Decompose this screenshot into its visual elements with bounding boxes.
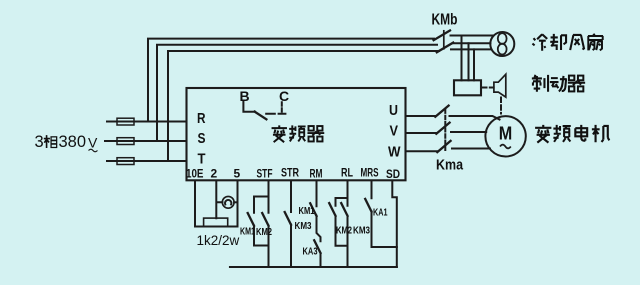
svg-text:2: 2 xyxy=(211,167,218,181)
terminal stub 2 wire to pot wiper circle xyxy=(216,181,222,218)
svg-text:KM2: KM2 xyxy=(256,226,272,238)
terminal label R xyxy=(197,110,206,127)
wire pot circle to terminal 5 xyxy=(234,201,237,203)
wire U from inverter xyxy=(406,115,436,117)
svg-text:MRS: MRS xyxy=(361,166,379,180)
RL branch stub and split xyxy=(336,181,348,206)
terminal label SD xyxy=(386,167,400,181)
svg-text:Kma: Kma xyxy=(436,157,464,174)
svg-text:SD: SD xyxy=(386,167,400,181)
fuse FU3 (T phase) xyxy=(117,158,134,165)
RM branch wire lower xyxy=(320,253,322,267)
svg-text:1k2/2w: 1k2/2w xyxy=(197,233,240,248)
svg-text:U: U xyxy=(389,102,398,119)
contact KA3 blade (RM) xyxy=(314,240,320,253)
svg-text:380: 380 xyxy=(59,133,87,151)
contactor KMb pole 2 blade xyxy=(437,43,453,53)
contactor Kma dashed linkage xyxy=(444,110,446,151)
motor label M xyxy=(499,123,513,149)
switch C dashed stem xyxy=(281,102,283,113)
svg-text:STR: STR xyxy=(281,166,299,180)
svg-text:RM: RM xyxy=(310,167,323,181)
terminal label RL xyxy=(341,166,353,180)
wire KMb to fan phase 3 xyxy=(451,48,491,50)
terminal label STF xyxy=(257,167,273,181)
RL branch rejoin xyxy=(336,216,348,267)
contact KM2 blade (RL) xyxy=(329,203,335,216)
wire riser T to fan branch xyxy=(168,51,439,161)
contactor Kma pole V blade xyxy=(436,123,449,134)
terminal label 10E xyxy=(186,167,204,181)
wire Kma to motor U xyxy=(450,116,500,120)
label KA3 (RM) xyxy=(303,245,318,257)
terminal label T xyxy=(198,151,206,168)
inverter box outline xyxy=(187,88,406,180)
svg-text:V: V xyxy=(88,135,98,151)
svg-text:W: W xyxy=(388,144,401,161)
STF branch rejoin xyxy=(254,226,269,267)
svg-text:M: M xyxy=(499,123,513,144)
RM branch wire upper xyxy=(317,181,321,241)
svg-text:RL: RL xyxy=(341,166,353,180)
wire T phase from supply to inverter xyxy=(107,160,187,162)
label 变频器 inverter xyxy=(272,125,325,142)
terminal label MRS xyxy=(361,166,379,180)
contactor KMb pole 1 blade xyxy=(434,31,450,41)
contact KM2 blade (STF) xyxy=(262,213,268,226)
terminal label S xyxy=(198,130,206,147)
SD wire xyxy=(392,181,397,267)
svg-text:3: 3 xyxy=(35,133,44,151)
svg-text:R: R xyxy=(197,110,206,127)
switch B-C blade xyxy=(255,112,267,120)
terminal label W xyxy=(388,144,401,161)
svg-text:KM1: KM1 xyxy=(240,226,255,238)
svg-text:KM3: KM3 xyxy=(295,220,312,232)
contact KM3 blade (RL) xyxy=(341,203,347,216)
terminal label STR xyxy=(281,166,299,180)
label KA1 (MRS) xyxy=(373,207,388,219)
wire tap 1 to brake rectifier xyxy=(461,36,463,81)
svg-text:KM2: KM2 xyxy=(336,225,352,237)
wire tap 2 to brake rectifier xyxy=(468,43,470,80)
terminal label 5 xyxy=(234,167,241,181)
motor M circle xyxy=(485,116,525,156)
wire V from inverter xyxy=(406,132,437,134)
svg-text:KA1: KA1 xyxy=(373,207,388,219)
wire S phase from supply to inverter xyxy=(105,140,187,142)
mechanical link brake xyxy=(481,87,494,89)
wire Kma to motor V xyxy=(451,131,486,133)
label 冷却风扇 cooling fan xyxy=(532,34,603,51)
terminal label V xyxy=(390,122,399,139)
terminal label RM xyxy=(310,167,323,181)
contactor KMb linkage bar xyxy=(443,31,445,49)
switch contact seat ticks xyxy=(266,113,285,115)
fuse FU2 (S phase) xyxy=(117,138,134,145)
wire riser R to fan branch xyxy=(148,39,434,122)
terminal stub 10E xyxy=(194,181,196,227)
STF branch stub and split xyxy=(254,181,269,213)
resistor 1k2/2w body xyxy=(204,218,228,226)
terminal stub 5 xyxy=(237,181,239,227)
label 制动器 brake xyxy=(532,75,585,92)
common rail wire xyxy=(230,266,397,268)
MRS branch wire xyxy=(372,181,397,247)
brake shoe horn symbol xyxy=(494,74,506,97)
contact KM3 blade (STR) xyxy=(285,212,291,225)
label KM2 (STF) xyxy=(256,226,272,238)
label KM1 (RM) xyxy=(299,205,315,217)
label KM1 (STF) xyxy=(240,226,255,238)
label KM2 (RL) xyxy=(336,225,352,237)
wire KMb to fan phase 2 xyxy=(453,42,491,44)
contactor Kma pole W blade xyxy=(437,141,450,152)
svg-text:5: 5 xyxy=(234,167,241,181)
label C xyxy=(279,88,289,104)
wire tap 3 to brake rectifier xyxy=(473,49,475,80)
svg-text:KM3: KM3 xyxy=(353,225,370,237)
cooling fan blades symbol xyxy=(498,33,507,54)
svg-text:10E: 10E xyxy=(186,167,204,181)
contactor Kma pole U blade xyxy=(435,106,448,117)
svg-text:STF: STF xyxy=(257,167,273,181)
svg-text:V: V xyxy=(390,122,399,139)
potentiometer dial circle xyxy=(222,196,234,208)
label 1k2/2w xyxy=(197,233,240,248)
label 3相380V xyxy=(35,133,99,152)
terminal label U xyxy=(389,102,398,119)
label KM3 (RL) xyxy=(353,225,370,237)
label B xyxy=(240,88,250,104)
contact KM1 blade (STF) xyxy=(248,213,254,226)
contact KM1 blade (RM) xyxy=(310,203,316,216)
cooling fan motor circle xyxy=(490,32,514,56)
svg-text:KM1: KM1 xyxy=(299,205,315,217)
fuse FU1 (R phase) xyxy=(117,118,134,125)
wire KMb to fan phase 1 xyxy=(451,35,494,37)
switch B stem xyxy=(243,102,255,112)
label KMb xyxy=(432,12,458,29)
wire riser S to fan branch xyxy=(157,45,437,141)
wire W from inverter xyxy=(406,150,438,152)
svg-text:T: T xyxy=(198,151,206,168)
label Kma xyxy=(436,157,464,174)
svg-text:C: C xyxy=(279,88,289,104)
wire pot bottom xyxy=(195,226,238,228)
svg-text:KA3: KA3 xyxy=(303,245,318,257)
STR branch wire xyxy=(290,181,292,267)
svg-text:S: S xyxy=(198,130,206,147)
wire Kma to motor W xyxy=(452,148,490,150)
brake solenoid box xyxy=(454,80,481,95)
terminal label 2 xyxy=(211,167,218,181)
label 变频电机 motor xyxy=(535,125,609,143)
svg-text:KMb: KMb xyxy=(432,12,458,29)
label KM3 (STR) xyxy=(295,220,312,232)
svg-text:B: B xyxy=(240,88,250,104)
wire R phase from supply to inverter xyxy=(107,121,187,123)
contact KA1 blade (MRS) xyxy=(365,199,371,212)
dashed shaft link brake to motor xyxy=(500,98,502,114)
